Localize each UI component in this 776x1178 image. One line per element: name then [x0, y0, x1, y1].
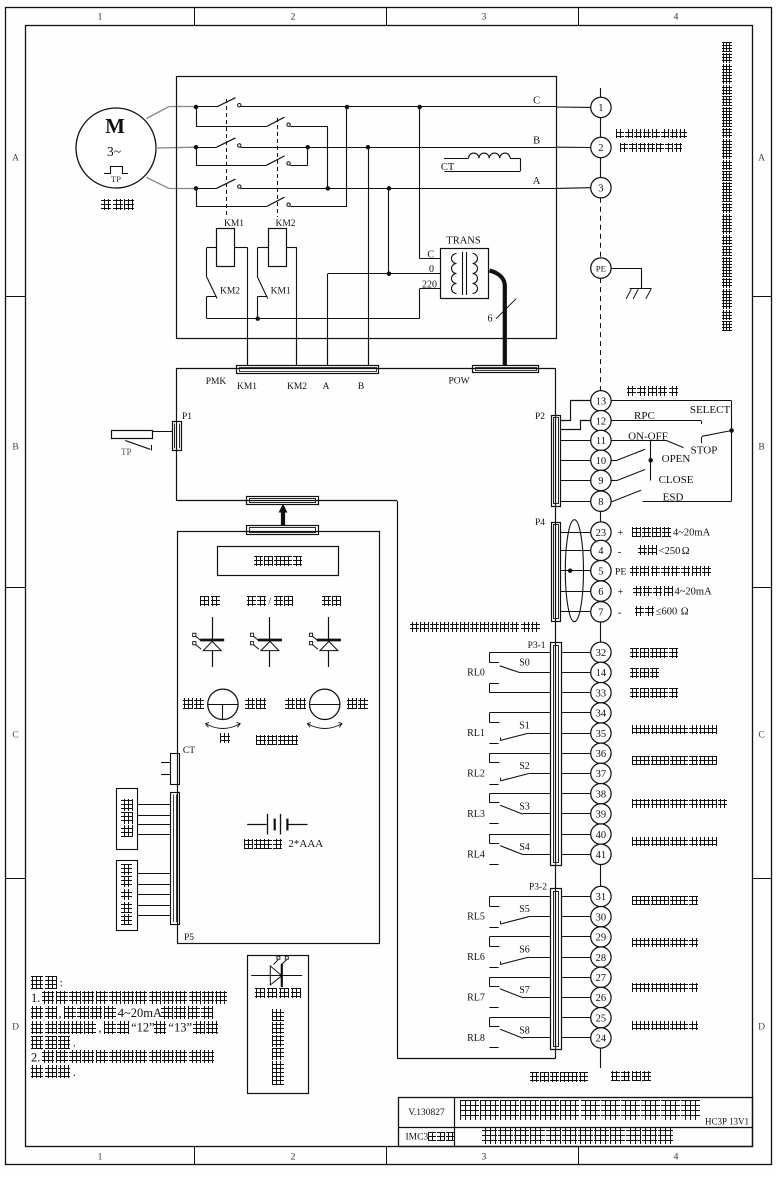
svg-text:P3-2: P3-2	[529, 883, 547, 893]
svg-text:S3: S3	[519, 801, 530, 812]
svg-text:1: 1	[98, 13, 103, 23]
svg-text:P1: P1	[182, 412, 192, 422]
svg-text:TRANS: TRANS	[446, 236, 481, 247]
svg-text:3~: 3~	[107, 144, 121, 159]
svg-text:2: 2	[291, 1153, 296, 1163]
svg-text:34: 34	[596, 709, 607, 720]
svg-text:31: 31	[596, 892, 607, 903]
svg-text:23: 23	[596, 528, 607, 539]
svg-text:3: 3	[482, 13, 487, 23]
svg-text:5: 5	[598, 566, 603, 577]
svg-text::: :	[60, 976, 63, 990]
svg-text:B: B	[12, 443, 18, 453]
svg-text:RL3: RL3	[467, 809, 485, 820]
svg-text:SELECT: SELECT	[690, 404, 731, 416]
svg-text:S1: S1	[519, 721, 530, 732]
svg-text:<250: <250	[659, 546, 681, 557]
svg-text:B: B	[358, 382, 364, 392]
svg-text:S4: S4	[519, 842, 530, 853]
svg-text:PE: PE	[615, 566, 626, 577]
svg-text:28: 28	[596, 953, 607, 964]
svg-text:9: 9	[598, 476, 603, 487]
svg-text:KM2: KM2	[287, 382, 307, 392]
svg-text:24: 24	[596, 1034, 607, 1045]
svg-text:1: 1	[98, 1153, 103, 1163]
svg-text:RL0: RL0	[467, 668, 485, 679]
svg-text:RL8: RL8	[467, 1033, 485, 1044]
svg-text:1.: 1.	[31, 991, 40, 1005]
svg-text:P3-1: P3-1	[528, 641, 546, 651]
svg-text:-: -	[618, 546, 622, 558]
svg-text:11: 11	[596, 436, 606, 447]
svg-text:≤600: ≤600	[656, 607, 678, 618]
svg-text:ESD: ESD	[663, 492, 684, 504]
svg-text:S6: S6	[519, 945, 530, 956]
svg-text:P2: P2	[535, 412, 545, 422]
svg-text:RPC: RPC	[634, 410, 655, 422]
svg-text:S5: S5	[519, 904, 530, 915]
svg-text:TP: TP	[121, 447, 132, 457]
svg-text:37: 37	[596, 769, 607, 780]
svg-text:29: 29	[596, 933, 607, 944]
svg-text:25: 25	[596, 1013, 607, 1024]
svg-text:“13”: “13”	[168, 1021, 192, 1035]
svg-text:33: 33	[596, 688, 607, 699]
svg-text:4: 4	[674, 13, 679, 23]
svg-text:-: -	[618, 607, 622, 619]
svg-text:OPEN: OPEN	[662, 453, 691, 465]
svg-text:6: 6	[488, 314, 493, 325]
svg-text:KM2: KM2	[275, 219, 295, 229]
svg-text:,: ,	[99, 1021, 102, 1035]
svg-text:A: A	[758, 154, 765, 164]
svg-text:14: 14	[596, 668, 607, 679]
svg-text:HC3P 13V1: HC3P 13V1	[705, 1117, 749, 1127]
svg-text:32: 32	[596, 648, 607, 659]
svg-text:S7: S7	[519, 985, 530, 996]
svg-text:KM1: KM1	[237, 382, 257, 392]
svg-text:D: D	[12, 1023, 19, 1033]
svg-text:A: A	[12, 154, 19, 164]
svg-text:C: C	[427, 250, 434, 261]
svg-text:KM1: KM1	[271, 287, 291, 297]
svg-text:P4: P4	[535, 518, 545, 528]
svg-text:220: 220	[422, 280, 437, 291]
svg-text:C: C	[12, 731, 18, 741]
svg-text:30: 30	[596, 912, 607, 923]
svg-text:C: C	[758, 731, 764, 741]
svg-text:1: 1	[598, 103, 603, 114]
svg-text:RL6: RL6	[467, 952, 485, 963]
svg-text:2*AAA: 2*AAA	[288, 838, 323, 850]
svg-text:+: +	[618, 587, 624, 598]
svg-text:27: 27	[596, 973, 607, 984]
svg-text:RL2: RL2	[467, 769, 485, 780]
svg-text:39: 39	[596, 810, 607, 821]
svg-text:POW: POW	[448, 377, 469, 387]
svg-text:RL7: RL7	[467, 993, 485, 1004]
svg-text:PE: PE	[596, 263, 606, 273]
svg-text:IMC3: IMC3	[406, 1133, 429, 1143]
svg-text:3: 3	[598, 183, 603, 194]
svg-text:B: B	[533, 135, 540, 146]
svg-text:P5: P5	[184, 933, 194, 943]
svg-text:PMK: PMK	[206, 377, 227, 387]
svg-text:0: 0	[429, 264, 434, 275]
svg-text:RL5: RL5	[467, 912, 485, 923]
svg-text:/: /	[268, 597, 271, 608]
svg-text:36: 36	[596, 749, 607, 760]
svg-text:4: 4	[674, 1153, 679, 1163]
svg-text:2: 2	[291, 13, 296, 23]
svg-text:35: 35	[596, 729, 607, 740]
svg-text:D: D	[758, 1023, 765, 1033]
svg-text:6: 6	[598, 587, 603, 598]
svg-text:KM1: KM1	[224, 219, 244, 229]
svg-text:.: .	[73, 1065, 76, 1079]
svg-text:S8: S8	[519, 1025, 530, 1036]
svg-text:B: B	[758, 443, 764, 453]
svg-text:V.130827: V.130827	[408, 1108, 445, 1118]
svg-text:41: 41	[596, 850, 607, 861]
svg-text:+: +	[618, 528, 624, 539]
svg-text:CLOSE: CLOSE	[659, 474, 694, 486]
svg-text:3: 3	[482, 1153, 487, 1163]
svg-text:M: M	[105, 114, 125, 138]
svg-text:STOP: STOP	[691, 445, 718, 457]
svg-text:CT: CT	[441, 162, 455, 173]
svg-text:4: 4	[598, 546, 604, 557]
svg-text:KM2: KM2	[220, 287, 240, 297]
svg-text:,: ,	[59, 1006, 62, 1020]
svg-text:38: 38	[596, 789, 607, 800]
svg-text:.: .	[73, 1036, 76, 1050]
svg-text:ON-OFF: ON-OFF	[628, 431, 668, 443]
svg-text:4~20mA: 4~20mA	[118, 1006, 162, 1020]
svg-text:RL4: RL4	[467, 849, 485, 860]
svg-text:40: 40	[596, 830, 607, 841]
svg-text:S2: S2	[519, 761, 530, 772]
svg-text:12: 12	[596, 416, 607, 427]
svg-text:2: 2	[598, 143, 603, 154]
svg-text:C: C	[533, 96, 540, 107]
svg-text:Ω: Ω	[681, 607, 689, 618]
svg-text:2.: 2.	[31, 1050, 40, 1064]
svg-text:8: 8	[598, 497, 603, 508]
svg-text:4~20mA: 4~20mA	[675, 587, 713, 598]
svg-text:TP: TP	[111, 174, 121, 184]
svg-text:A: A	[323, 382, 330, 392]
svg-text:26: 26	[596, 993, 607, 1004]
svg-text:7: 7	[598, 608, 603, 619]
svg-text:10: 10	[596, 456, 607, 467]
svg-text:CT: CT	[183, 746, 195, 756]
svg-text:4~20mA: 4~20mA	[673, 528, 711, 539]
svg-text:S0: S0	[519, 658, 530, 669]
svg-text:A: A	[533, 176, 541, 187]
svg-text:13: 13	[596, 397, 607, 408]
svg-text:RL1: RL1	[467, 728, 485, 739]
svg-text:“12”: “12”	[131, 1021, 155, 1035]
svg-text:Ω: Ω	[682, 546, 690, 557]
